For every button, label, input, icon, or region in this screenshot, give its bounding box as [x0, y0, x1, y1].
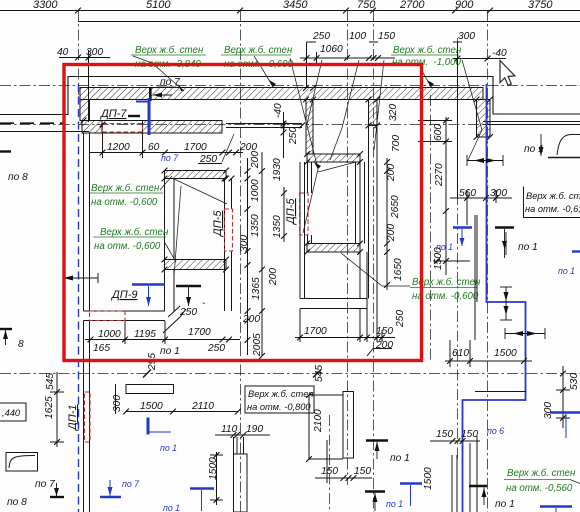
svg-text:-40: -40 [492, 48, 507, 59]
svg-text:Верх ж.б. сте: Верх ж.б. сте [526, 191, 580, 201]
svg-text:150: 150 [321, 466, 338, 477]
svg-text:1930: 1930 [272, 158, 283, 181]
svg-text:150: 150 [378, 31, 395, 42]
svg-text:165: 165 [93, 343, 110, 354]
svg-text:1350: 1350 [272, 215, 283, 238]
svg-text:530: 530 [569, 373, 580, 390]
svg-text:по 7: по 7 [161, 153, 179, 163]
svg-text:150: 150 [436, 429, 453, 440]
svg-text:ДП-5: ДП-5 [212, 210, 224, 238]
svg-text:Верх ж.б. стен: Верх ж.б. стен [393, 45, 462, 56]
svg-text:3450: 3450 [283, 0, 308, 11]
svg-text:600: 600 [433, 124, 444, 141]
svg-text:1500: 1500 [494, 348, 517, 359]
svg-text:2005: 2005 [252, 333, 263, 357]
svg-text:100: 100 [349, 31, 366, 42]
svg-text:Верх ж.б. стен: Верх ж.б. стен [91, 183, 160, 194]
svg-text:200: 200 [386, 224, 397, 242]
svg-text:150: 150 [461, 429, 478, 440]
svg-text:Верх ж.б. стен: Верх ж.б. стен [248, 389, 314, 399]
svg-text:2650: 2650 [390, 195, 401, 219]
svg-text:3300: 3300 [33, 0, 58, 11]
svg-text:1000: 1000 [250, 179, 261, 202]
svg-text:Верх ж.б. стен: Верх ж.б. стен [224, 45, 293, 56]
svg-text:-40: -40 [273, 103, 284, 118]
svg-text:по 1: по 1 [518, 242, 538, 253]
svg-text:700: 700 [391, 135, 402, 152]
svg-text:по 1: по 1 [160, 443, 177, 453]
svg-text:-: - [202, 298, 206, 309]
svg-text:1700: 1700 [304, 326, 327, 337]
svg-text:750: 750 [357, 0, 376, 11]
svg-text:по 1: по 1 [436, 242, 453, 252]
svg-text:2110: 2110 [191, 401, 214, 412]
svg-text:по 1: по 1 [495, 499, 515, 510]
svg-text:250: 250 [288, 127, 299, 145]
svg-text:2100: 2100 [313, 409, 324, 433]
svg-text:на отм. -0,800: на отм. -0,800 [247, 402, 311, 412]
svg-text:по 1: по 1 [390, 453, 410, 464]
svg-text:150: 150 [354, 466, 371, 477]
svg-text:ДП-5: ДП-5 [285, 198, 297, 226]
svg-text:1500: 1500 [423, 467, 434, 490]
svg-text:40: 40 [57, 47, 69, 58]
svg-text:ДП-1: ДП-1 [67, 405, 79, 433]
svg-text:200: 200 [268, 268, 279, 286]
svg-text:200: 200 [375, 340, 393, 351]
svg-text:1500: 1500 [140, 401, 163, 412]
svg-text:900: 900 [455, 0, 474, 11]
svg-text:по 7: по 7 [122, 479, 140, 489]
svg-text:3750: 3750 [528, 0, 553, 11]
svg-text:на отм. -0,600: на отм. -0,600 [94, 241, 161, 252]
svg-text:1500: 1500 [208, 457, 219, 480]
svg-text:250: 250 [179, 307, 197, 318]
svg-text:,440: ,440 [2, 408, 21, 418]
svg-text:250: 250 [199, 154, 217, 165]
svg-text:300: 300 [112, 395, 123, 412]
svg-text:190: 190 [246, 424, 263, 435]
svg-text:300: 300 [86, 47, 103, 58]
svg-text:250: 250 [312, 31, 330, 42]
svg-text:на отм. -0,560: на отм. -0,560 [506, 483, 573, 494]
svg-text:по 8: по 8 [7, 497, 27, 508]
svg-text:60: 60 [148, 142, 160, 153]
svg-text:5100: 5100 [146, 0, 171, 11]
svg-text:300: 300 [543, 402, 554, 419]
svg-text:545: 545 [314, 365, 325, 382]
svg-text:250: 250 [207, 343, 225, 354]
svg-text:110: 110 [221, 424, 238, 435]
svg-text:ДП-9: ДП-9 [110, 289, 138, 301]
svg-text:545: 545 [45, 373, 56, 390]
svg-text:1000: 1000 [98, 329, 121, 340]
svg-text:200: 200 [386, 164, 397, 182]
svg-text:1060: 1060 [320, 44, 343, 55]
svg-text:320: 320 [388, 104, 399, 121]
svg-text:300: 300 [490, 188, 507, 199]
svg-text:по 1: по 1 [558, 266, 575, 276]
svg-text:на отм. -1,000: на отм. -1,000 [392, 57, 462, 68]
svg-text:по 1: по 1 [160, 346, 180, 357]
svg-text:150: 150 [376, 326, 393, 337]
svg-text:на отм. -0,600: на отм. -0,600 [91, 197, 158, 208]
svg-text:2270: 2270 [434, 163, 445, 187]
svg-text:Верх ж.б. стен: Верх ж.б. стен [100, 227, 169, 238]
svg-text:610: 610 [452, 348, 469, 359]
svg-text:по 7: по 7 [35, 479, 55, 490]
svg-text:2700: 2700 [399, 0, 425, 11]
svg-text:8: 8 [18, 339, 24, 350]
svg-text:300: 300 [458, 31, 475, 42]
svg-text:1700: 1700 [184, 142, 207, 153]
svg-text:560: 560 [459, 188, 476, 199]
svg-text:по 1: по 1 [386, 499, 403, 509]
svg-text:250: 250 [395, 310, 406, 328]
svg-text:1650: 1650 [393, 258, 404, 281]
svg-text:1350: 1350 [250, 214, 261, 237]
svg-text:1195: 1195 [134, 329, 156, 340]
svg-text:200: 200 [250, 151, 261, 169]
svg-text:ДП-7: ДП-7 [99, 108, 127, 120]
svg-text:Верх ж.б. стен: Верх ж.б. стен [507, 468, 576, 479]
svg-text:на отм. -0,6;: на отм. -0,6; [525, 204, 580, 214]
svg-text:по 6: по 6 [487, 426, 504, 436]
svg-text:1200: 1200 [107, 142, 130, 153]
svg-text:по 8: по 8 [8, 172, 28, 183]
svg-text:Верх ж.б. стен: Верх ж.б. стен [135, 45, 204, 56]
svg-text:1625: 1625 [44, 396, 55, 419]
svg-text:1700: 1700 [188, 327, 211, 338]
svg-text:1365: 1365 [251, 277, 262, 300]
svg-text:по 1: по 1 [163, 503, 180, 512]
